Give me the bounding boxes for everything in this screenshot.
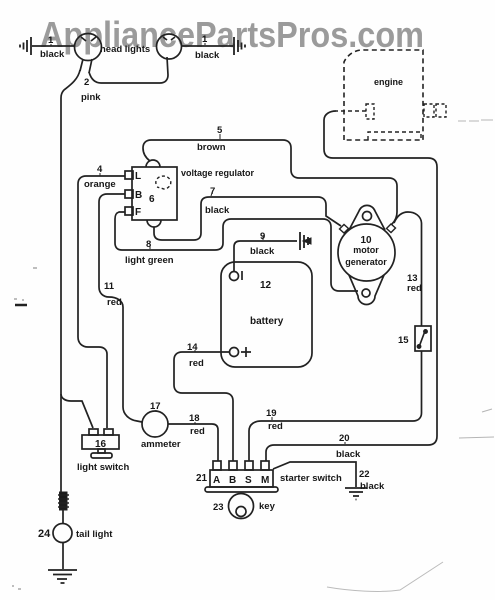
wire 19 red from fuse down to starter switch S — [249, 351, 422, 461]
svg-text:16: 16 — [95, 439, 107, 450]
svg-text:black: black — [250, 246, 275, 257]
wire 13 red from generator right stub down right side — [394, 212, 422, 326]
label 8 light green — [125, 239, 174, 266]
ground right of head lights — [234, 37, 245, 55]
wire branch from pink wire to light switch left terminal — [61, 394, 93, 428]
svg-text:red: red — [407, 283, 422, 294]
battery labels 12 battery — [250, 280, 284, 327]
label 23 key — [213, 501, 276, 513]
wire from resistor to tail light and ground — [62, 510, 64, 569]
svg-text:B: B — [229, 475, 236, 486]
light switch 16 body — [82, 435, 119, 458]
label 13 red — [407, 273, 422, 294]
ammeter M17 — [142, 411, 168, 437]
svg-text:AppliancePartsPros.com: AppliancePartsPros.com — [40, 14, 424, 55]
terminal F of regulator — [125, 207, 133, 215]
svg-text:starter switch: starter switch — [280, 473, 342, 484]
starter switch terminal M — [261, 461, 269, 470]
svg-text:black: black — [195, 50, 220, 61]
battery negative terminal — [230, 271, 243, 281]
battery B12 body — [221, 262, 312, 367]
generator left terminal stub — [340, 225, 349, 234]
label 19 red — [266, 408, 283, 432]
label 14 red — [187, 342, 204, 369]
dashed lead from component 3 — [336, 110, 366, 112]
svg-text:L: L — [135, 171, 141, 182]
svg-text:14: 14 — [187, 342, 198, 353]
svg-text:engine: engine — [374, 77, 403, 87]
svg-text:21: 21 — [196, 473, 208, 484]
starter switch terminal B — [229, 461, 237, 470]
wire neck below left head light — [80, 59, 92, 73]
ground below tail light — [48, 570, 77, 583]
battery positive terminal — [230, 347, 252, 357]
head light left (lamp L1) — [75, 34, 102, 61]
svg-text:17: 17 — [150, 401, 161, 412]
svg-text:generator: generator — [345, 257, 387, 267]
wire 11 red from regulator B terminal to ammeter — [99, 194, 142, 422]
label 7 black — [205, 186, 230, 216]
svg-text:orange: orange — [84, 179, 116, 190]
svg-text:24: 24 — [38, 528, 51, 540]
svg-text:motor: motor — [353, 245, 379, 255]
light switch terminal left — [89, 429, 98, 435]
inner dashed box at engine bottom — [368, 132, 421, 140]
svg-text:battery: battery — [250, 316, 284, 327]
wire linking the two head lights — [89, 57, 168, 83]
svg-text:6: 6 — [149, 194, 155, 205]
wire 5 brown from regulator top to generator right stub — [143, 140, 397, 224]
svg-text:18: 18 — [189, 413, 200, 424]
svg-text:black: black — [40, 49, 65, 60]
label 1 black (left head light) — [40, 35, 65, 60]
svg-text:12: 12 — [260, 280, 272, 291]
ground at wire 9 — [300, 232, 311, 250]
scan artifact faint marks right — [458, 120, 494, 438]
svg-text:S: S — [245, 475, 252, 486]
svg-text:F: F — [135, 207, 141, 218]
svg-text:brown: brown — [197, 142, 226, 153]
label 2 pink — [81, 77, 101, 103]
ground at wire 22 — [345, 488, 367, 500]
svg-text:pink: pink — [81, 92, 101, 103]
wire 4 orange from regulator L terminal — [78, 176, 125, 428]
svg-text:black: black — [336, 449, 361, 460]
svg-text:head lights: head lights — [100, 44, 150, 55]
svg-text:tail light: tail light — [76, 529, 113, 540]
key 23 — [229, 494, 254, 519]
svg-text:15: 15 — [398, 335, 409, 346]
svg-text:M: M — [261, 475, 269, 486]
svg-text:19: 19 — [266, 408, 277, 419]
starter switch terminal A — [213, 461, 221, 470]
label 9 black — [250, 231, 275, 257]
svg-text:23: 23 — [213, 502, 224, 513]
svg-text:light green: light green — [125, 255, 174, 266]
scan artifact dash left — [15, 304, 27, 307]
svg-text:voltage regulator: voltage regulator — [181, 168, 255, 178]
component 3 dashed box inside engine — [366, 104, 374, 119]
svg-text:20: 20 — [339, 433, 350, 444]
label 24 tail light — [38, 528, 113, 540]
svg-text:red: red — [107, 297, 122, 308]
label 4 orange — [84, 164, 116, 190]
terminal B of regulator — [125, 190, 133, 198]
wire 2 pink vertical down to light switch and tail light — [61, 70, 80, 492]
generator right terminal stub — [387, 224, 396, 233]
label 18 red — [189, 413, 205, 437]
label 16 light switch — [77, 439, 129, 473]
wire 7 black from regulator bottom to generator left stub — [154, 197, 341, 240]
voltage regulator internal dashed coil — [156, 176, 171, 189]
wire 9 black from battery to ground — [234, 241, 297, 271]
label 5 brown — [197, 125, 226, 153]
resistor element on tail light wire — [58, 492, 69, 510]
label 22 black — [359, 469, 385, 492]
wire 1 black right headlight to ground — [181, 45, 233, 47]
generator labels 10 motor generator — [345, 235, 387, 267]
wire 8 light green from regulator F to generator bottom — [115, 212, 358, 291]
starter switch terminal S — [245, 461, 253, 470]
label 11 red — [104, 281, 122, 308]
motor generator U10 body — [338, 205, 395, 304]
scan artifact faint arc bottom — [327, 562, 443, 591]
label 20 black — [336, 433, 361, 460]
starter switch body — [205, 470, 278, 492]
wire 22 from starter switch to ground — [273, 462, 356, 487]
svg-text:B: B — [135, 190, 142, 201]
label 21 and starter switch letters — [196, 473, 269, 486]
svg-text:22: 22 — [359, 469, 370, 480]
svg-text:11: 11 — [104, 281, 115, 292]
light switch terminal right — [104, 429, 113, 435]
svg-text:red: red — [190, 426, 205, 437]
svg-text:black: black — [360, 481, 385, 492]
fuse 15 — [415, 326, 431, 351]
wire 18 red from ammeter to starter switch A — [168, 424, 218, 461]
wire 20 black from engine to starter switch M — [266, 111, 437, 461]
svg-text:red: red — [189, 358, 204, 369]
svg-text:key: key — [259, 501, 276, 512]
svg-text:8: 8 — [146, 239, 151, 250]
wire 1 black left headlight to ground — [32, 45, 75, 47]
voltage regulator U6 body — [132, 160, 177, 227]
engine dashed outline — [344, 50, 423, 140]
wire 14 red from battery plus to starter switch B — [174, 352, 233, 461]
svg-text:light switch: light switch — [77, 462, 129, 473]
svg-text:black: black — [205, 205, 230, 216]
tail light lamp 24 — [53, 524, 72, 543]
svg-text:red: red — [268, 421, 283, 432]
regulator terminal letters L B F and 6 — [135, 171, 155, 218]
svg-text:A: A — [213, 475, 220, 486]
dashed boxes right of engine — [424, 104, 446, 117]
svg-text:2: 2 — [84, 77, 89, 88]
svg-text:ammeter: ammeter — [141, 439, 181, 450]
scan artifact specks — [12, 268, 37, 589]
ground left of head lights — [20, 37, 31, 55]
terminal L of regulator — [125, 171, 133, 179]
head light right (lamp L2) — [157, 34, 182, 59]
label 1 black (right head light) — [195, 34, 220, 61]
label 17 ammeter — [141, 401, 181, 450]
